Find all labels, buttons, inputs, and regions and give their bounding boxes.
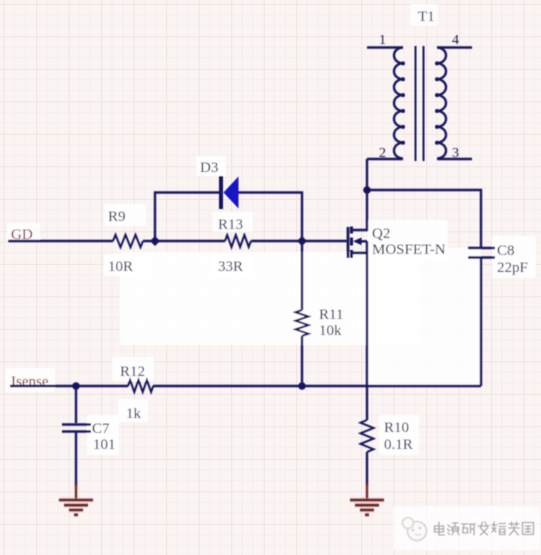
value 0.1R (384, 437, 413, 453)
label C7 (92, 421, 110, 437)
value MOSFET-N (372, 242, 446, 258)
wire pin2 to drain node (366, 159, 368, 190)
svg-text:0.1R: 0.1R (384, 437, 413, 453)
white patch 10R (104, 254, 146, 276)
white patch Q2 labels (368, 220, 448, 260)
svg-text:R13: R13 (218, 217, 243, 233)
svg-text:R11: R11 (319, 307, 343, 323)
value 1k (126, 406, 142, 422)
capacitor C8 (468, 248, 495, 258)
resistor R9 (113, 235, 143, 247)
transformer T1 pin 2 stub (367, 158, 403, 160)
svg-text:101: 101 (93, 437, 116, 453)
white patch GD (7, 223, 40, 242)
svg-text:MOSFET-N: MOSFET-N (372, 242, 446, 258)
label R12 (120, 364, 145, 380)
transformer T1 core (416, 46, 424, 161)
wire C7 branch (75, 386, 77, 423)
transformer T1 pin 3 number (452, 146, 459, 161)
svg-text:4: 4 (452, 33, 459, 48)
transformer T1 pin 3 stub (437, 158, 472, 160)
resistor R13 (225, 235, 251, 247)
svg-text:R12: R12 (120, 364, 145, 380)
label R10 (384, 420, 409, 436)
resistor R11 (296, 310, 309, 336)
wire R13 to gate (251, 240, 347, 242)
transistor Q2 gate bar (347, 227, 350, 258)
white patch R13 (213, 212, 253, 232)
wire R10 branch (366, 386, 368, 420)
svg-text:D3: D3 (200, 160, 218, 176)
transformer T1 pin 2 number (379, 146, 386, 161)
transformer T1 pin 4 number (452, 33, 459, 48)
transistor Q2 arrow (353, 238, 367, 246)
node A junction dot (150, 236, 160, 246)
wire Isense rail right (153, 385, 481, 387)
svg-text:R9: R9 (108, 209, 126, 225)
white patch C8 labels (492, 236, 536, 278)
svg-text:10k: 10k (319, 323, 342, 339)
transformer T1 primary winding (394, 48, 405, 159)
svg-text:10R: 10R (108, 259, 133, 275)
white patch T1 (410, 4, 438, 26)
ground GND1 stub (75, 484, 77, 499)
ground GND1 (59, 500, 93, 515)
label C8 (497, 243, 515, 259)
svg-text:1k: 1k (126, 406, 142, 422)
white patch R10 0.1R (379, 415, 419, 455)
transformer T1 pin 1 number (379, 33, 386, 48)
node R11 junction dot (298, 382, 306, 390)
wire C8 down (480, 259, 482, 387)
ground GND2 (350, 500, 384, 515)
value 22pF (497, 260, 528, 276)
white patch C7 101 (87, 415, 119, 455)
transformer T1 label (418, 9, 435, 25)
wire R10 to ground (366, 452, 368, 486)
svg-text:33R: 33R (218, 259, 243, 275)
svg-text:Q2: Q2 (372, 226, 390, 242)
wire C7 to ground (75, 432, 77, 486)
svg-text:R10: R10 (384, 420, 409, 436)
transistor Q2 drain link (352, 190, 367, 230)
white patch watermark (393, 506, 540, 550)
diode D3 cathode bar (219, 176, 223, 209)
svg-text:T1: T1 (418, 9, 435, 25)
watermark logo (403, 518, 427, 541)
white patch Isense (5, 368, 55, 392)
white patch 33R (213, 254, 253, 276)
wire R9 to node A (143, 240, 225, 242)
label R9 (108, 209, 126, 225)
label R11 (319, 307, 343, 323)
white patch R12 (112, 357, 154, 381)
transistor Q2 channel segments (350, 227, 353, 259)
wire D3 branch left (155, 193, 219, 242)
watermark text (435, 522, 535, 536)
label R13 (218, 217, 243, 233)
wire GD lead (8, 240, 113, 242)
value 33R (218, 259, 243, 275)
diode D3 triangle (224, 177, 239, 209)
white patch D3 (196, 156, 226, 176)
white patch 1k (118, 399, 148, 422)
svg-text:1: 1 (379, 33, 386, 48)
node drain junction dot (363, 186, 371, 194)
label Q2 (372, 226, 390, 242)
value 101 (93, 437, 116, 453)
value 10k (319, 323, 342, 339)
wire drain to C8 (367, 190, 481, 247)
white patch R9 (104, 204, 146, 226)
svg-text:22pF: 22pF (497, 260, 528, 276)
svg-text:C8: C8 (497, 243, 515, 259)
wire R11 branch (301, 241, 303, 386)
transistor Q2 source link (352, 241, 367, 386)
capacitor C7 (62, 425, 91, 432)
white patch loop interior (368, 248, 481, 385)
net Isense label (11, 374, 49, 390)
ground GND2 stub (366, 484, 368, 499)
wire D3 branch right (239, 193, 303, 242)
svg-text:Isense: Isense (11, 374, 49, 390)
value 10R (108, 259, 133, 275)
transformer T1 pin 1 stub (367, 46, 403, 48)
label D3 (200, 160, 218, 176)
white patch center (120, 252, 420, 345)
resistor R12 (128, 380, 153, 392)
node B junction dot (297, 236, 307, 246)
transformer T1 secondary winding (435, 48, 446, 159)
transformer T1 pin 4 stub (437, 46, 472, 48)
svg-text:C7: C7 (92, 421, 110, 437)
node C7 junction dot (72, 382, 80, 390)
wire Isense rail left (10, 385, 128, 387)
net GD label (11, 227, 33, 243)
resistor R10 (361, 420, 374, 452)
